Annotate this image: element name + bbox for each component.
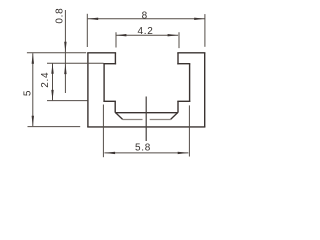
extension line lip bottom (for 0.8 and 2.4) bbox=[47, 62, 104, 64]
part outline: bottom edge bbox=[87, 126, 205, 128]
extension line 5.8 right bbox=[188, 105, 190, 156]
extension line cavity floor (for 2.4) bbox=[47, 100, 88, 102]
part outline: outer right wall bbox=[204, 53, 206, 127]
dimension line 5.8 bbox=[104, 152, 188, 154]
arrow 8 left bbox=[88, 18, 99, 20]
arrow 2.4 bottom bbox=[51, 90, 53, 101]
extension line top-left (for 5 and 0.8) bbox=[27, 52, 86, 54]
hidden groove bottom left dash bbox=[123, 119, 143, 121]
arrow 5 top bbox=[32, 53, 34, 64]
svg-text:2.4: 2.4 bbox=[40, 72, 51, 88]
part outline: outer left wall bbox=[87, 53, 89, 127]
arrow 2.4 top bbox=[51, 63, 53, 74]
slot opening left lip wall bbox=[114, 53, 116, 65]
extension line 4.2 right bbox=[178, 32, 180, 48]
svg-text:5: 5 bbox=[23, 90, 34, 96]
left lip underside bbox=[103, 63, 116, 65]
dimension line 8 bbox=[88, 18, 205, 20]
arrow 0.8 upper (points down to top edge) bbox=[64, 42, 66, 53]
centerline bbox=[145, 97, 147, 142]
extension line 8 left bbox=[86, 14, 88, 47]
cavity left wall bbox=[103, 64, 105, 102]
recess right wall bbox=[177, 101, 179, 112]
leader 0.8 (continuous) bbox=[64, 10, 66, 93]
arrow 5.8 right bbox=[178, 152, 189, 154]
svg-text:0.8: 0.8 bbox=[55, 8, 66, 24]
dimension line 2.4 bbox=[52, 63, 54, 100]
arrow 5.8 left bbox=[105, 152, 116, 154]
cavity floor left segment bbox=[103, 100, 116, 102]
recess left chamfer bbox=[115, 113, 122, 120]
arrow 4.2 left bbox=[116, 34, 127, 36]
dimension line 5 bbox=[32, 53, 34, 126]
extension line 8 right bbox=[204, 14, 206, 47]
dimension line 4.2 bbox=[116, 34, 178, 36]
recess left wall bbox=[114, 101, 116, 112]
extension line bottom-left (for 5) bbox=[28, 126, 81, 128]
extension line 5.8 left bbox=[102, 105, 104, 158]
right lip underside bbox=[177, 63, 190, 65]
svg-text:5.8: 5.8 bbox=[135, 142, 151, 153]
svg-text:4.2: 4.2 bbox=[137, 26, 153, 37]
extension line 4.2 left bbox=[115, 32, 117, 47]
arrow 0.8 lower (points up to lip bottom) bbox=[64, 64, 66, 75]
arrow 4.2 right bbox=[168, 34, 179, 36]
recess floor line bbox=[115, 112, 178, 114]
arrow 5 bottom bbox=[32, 116, 34, 127]
arrow 8 right bbox=[194, 18, 205, 20]
svg-text:8: 8 bbox=[142, 11, 148, 22]
hidden groove bottom right dash bbox=[150, 119, 171, 121]
cavity right wall bbox=[189, 64, 191, 102]
part outline: top edge right segment bbox=[177, 52, 205, 54]
part outline: top edge left segment bbox=[87, 52, 116, 54]
cavity floor right segment bbox=[177, 100, 190, 102]
recess right chamfer bbox=[171, 113, 178, 120]
slot opening right lip wall bbox=[177, 53, 179, 65]
